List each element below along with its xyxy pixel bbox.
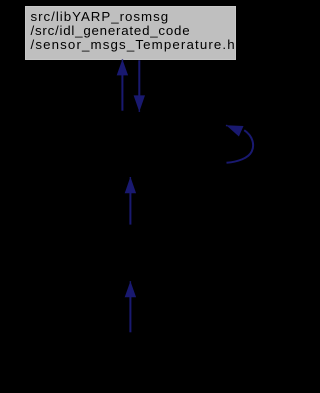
node U1: src/libYARP_rosmsg/src/idl_generated_code/sensor_msgs_Temperature.h bbox=[25, 6, 236, 60]
arrow tip dots (apex pixels) bbox=[122, 59, 124, 61]
wire: edge row4 -> row3 (up arrow shaft) bbox=[129, 297, 131, 333]
arrowhead up into row3 node bottom bbox=[125, 281, 136, 297]
wire: edge top node -> row2 (down arrow shaft) bbox=[138, 60, 140, 96]
arrowhead of self-loop (points up-left) bbox=[226, 125, 243, 136]
arrowhead down into row2 node bbox=[134, 95, 145, 111]
arrowhead up into top node bbox=[117, 59, 128, 75]
wire: edge row3 -> row2 (up arrow shaft) bbox=[129, 193, 131, 225]
wire: self-loop arc on row2 right node bbox=[227, 130, 254, 163]
arrowhead up into row2 node bottom bbox=[125, 177, 136, 193]
wire: edge row2 -> top node (up arrow shaft) bbox=[121, 75, 123, 111]
